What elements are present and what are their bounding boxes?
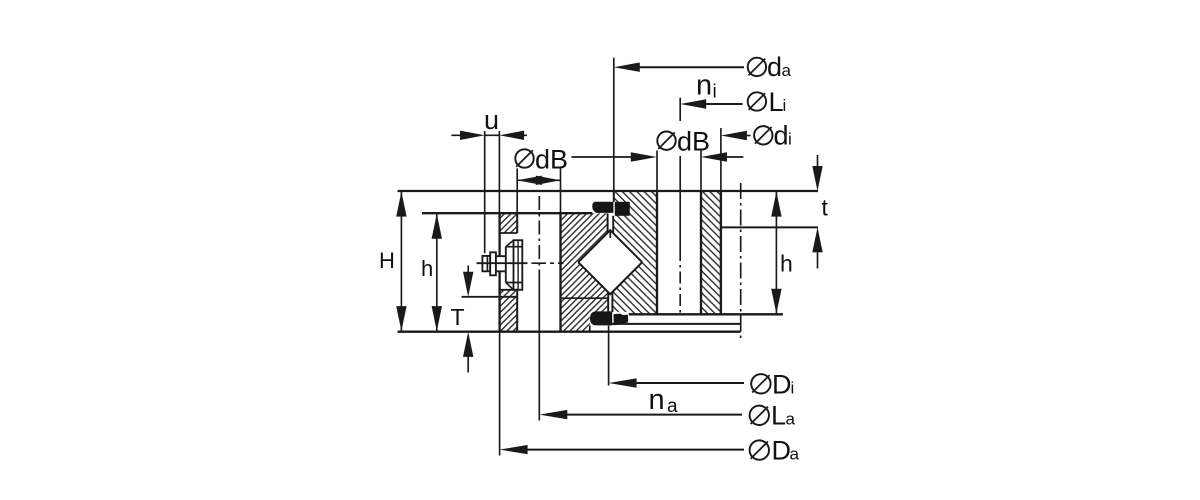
label ØDi (751, 374, 770, 393)
label Øda (748, 58, 766, 76)
fitting hex body (514, 240, 523, 290)
boss cone diagonals (506, 240, 514, 290)
inner ring bottom face line (629, 313, 783, 315)
svg-text:i: i (788, 130, 792, 149)
dimension h right (775, 191, 777, 314)
Ødi leader (746, 135, 751, 137)
dimension t (817, 155, 819, 269)
svg-text:d: d (774, 121, 789, 151)
svg-text:D: D (772, 369, 792, 399)
label ØLi (748, 92, 766, 110)
outer ring upper flange section hatch (500, 213, 517, 233)
svg-text:t: t (822, 195, 829, 221)
outer ring raceway block section hatch (561, 213, 609, 332)
svg-text:a: a (782, 61, 792, 80)
svg-text:dB: dB (677, 127, 710, 157)
svg-text:D: D (772, 436, 792, 466)
outer ring split line in raceway block (561, 297, 609, 299)
ØLa leader (566, 414, 742, 416)
dimension H (396, 63, 823, 455)
ØLi leader (705, 103, 743, 105)
svg-text:a: a (786, 410, 796, 429)
outer bolt hole right edge / raceway block left face (560, 169, 562, 214)
label Ødi (754, 126, 772, 144)
outer ring top face line (422, 212, 592, 214)
centerline of outer ring bolt hole (539, 98, 740, 421)
svg-text:i: i (713, 82, 717, 103)
leader from ØdB label to inner bolt hole (572, 156, 634, 158)
ØDi leader (636, 382, 744, 384)
svg-text:h: h (421, 256, 433, 281)
svg-text:n: n (649, 384, 665, 416)
step line for t dimension (721, 226, 818, 228)
svg-text:u: u (484, 105, 499, 135)
roller apex tick (609, 231, 611, 238)
nipple thread lines (496, 256, 506, 271)
svg-text:i: i (791, 378, 795, 397)
top seal left piece (592, 202, 613, 213)
inner bolt hole right edge (700, 151, 702, 192)
roller diamond lower raceway edges (578, 262, 642, 294)
fitting horizontal centerline (477, 262, 528, 264)
dimension h left (436, 213, 438, 332)
ØDa extension line (499, 332, 501, 456)
bottom slot left line (607, 292, 609, 312)
ØLi extension line / inner bolt hole centerline (679, 98, 681, 249)
svg-text:n: n (696, 70, 712, 102)
grease fitting (477, 240, 564, 290)
svg-text:dB: dB (535, 144, 568, 174)
svg-text:H: H (379, 248, 395, 273)
top slot left line (607, 213, 609, 232)
ØDa leader (527, 449, 744, 451)
outer ring split line / T step line (462, 296, 518, 298)
bottom seal right piece (614, 314, 629, 326)
svg-text:L: L (771, 401, 786, 431)
bottom slot right line (611, 292, 613, 312)
inner ring bore face Ødi (720, 128, 722, 191)
dimension ØdB outer (line with outward arrows) (517, 179, 560, 181)
grease boss cut bottom line (500, 289, 517, 291)
ØDi extension line (608, 326, 610, 386)
Øda leader (639, 66, 744, 68)
inner ring raceway block section hatch (612, 191, 657, 314)
outer ring OD face (498, 213, 500, 332)
label ØDa (750, 440, 769, 459)
right side centerline (740, 183, 742, 342)
dimension T (467, 266, 469, 373)
svg-text:h: h (780, 251, 793, 277)
inner ring top OD edge (da) (613, 191, 615, 202)
inner bolt hole left edge (656, 151, 658, 192)
top face line of inner ring with extensions (398, 190, 818, 192)
ØLa extension line (538, 278, 540, 421)
boss chamfer lines (506, 247, 523, 283)
svg-text:a: a (790, 445, 800, 464)
seal recess left wall (589, 326, 591, 332)
boss inner edge (505, 247, 507, 283)
grease nipple tip (482, 256, 490, 271)
bottom seal left piece (590, 311, 612, 325)
svg-text:L: L (769, 87, 784, 117)
label ØLa (750, 406, 769, 425)
bottom mounting face line (398, 331, 741, 333)
lower auxiliary line under inner ring (609, 323, 741, 325)
dimension u (484, 131, 486, 253)
Øda extension line (613, 58, 615, 191)
grease nipple flange (490, 252, 496, 275)
svg-text:T: T (451, 304, 465, 330)
outer ring lower flange section hatch (500, 290, 517, 332)
roller diamond outer raceway edges (578, 230, 642, 262)
svg-text:a: a (667, 396, 678, 417)
label ØdB inner (657, 132, 675, 150)
top slot right line (612, 216, 614, 233)
grease boss cut top line (500, 232, 517, 234)
svg-text:d: d (767, 52, 782, 82)
right arrow of inner ØdB dimension (726, 156, 743, 158)
top seal right piece (615, 202, 630, 216)
label ØdB outer (515, 149, 533, 167)
outer bolt hole left edge (516, 169, 518, 214)
svg-text:i: i (783, 96, 787, 115)
inner ring bore-side strip section hatch (701, 191, 721, 314)
